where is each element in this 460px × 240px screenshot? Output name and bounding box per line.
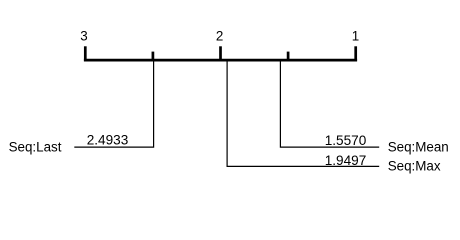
connector line Seq:Max bbox=[227, 60, 379, 166]
svg-text:1: 1 bbox=[352, 28, 359, 43]
svg-text:2.4933: 2.4933 bbox=[87, 133, 129, 148]
svg-text:3: 3 bbox=[80, 28, 87, 43]
svg-text:1.5570: 1.5570 bbox=[325, 133, 367, 148]
connector line Seq:Last bbox=[74, 60, 153, 147]
minor tick rank 2.5 bbox=[152, 52, 155, 61]
svg-text:Seq:Max: Seq:Max bbox=[388, 159, 441, 174]
svg-text:2: 2 bbox=[216, 28, 223, 43]
major tick rank 1 bbox=[354, 46, 357, 61]
svg-text:Seq:Last: Seq:Last bbox=[9, 139, 62, 154]
minor tick rank 1.5 bbox=[287, 52, 290, 61]
connector line Seq:Mean bbox=[280, 60, 379, 147]
major tick rank 2 bbox=[219, 46, 222, 61]
major tick rank 3 bbox=[84, 46, 87, 61]
svg-text:Seq:Mean: Seq:Mean bbox=[388, 139, 449, 154]
svg-text:1.9497: 1.9497 bbox=[325, 153, 367, 168]
axis spine bbox=[84, 59, 357, 62]
